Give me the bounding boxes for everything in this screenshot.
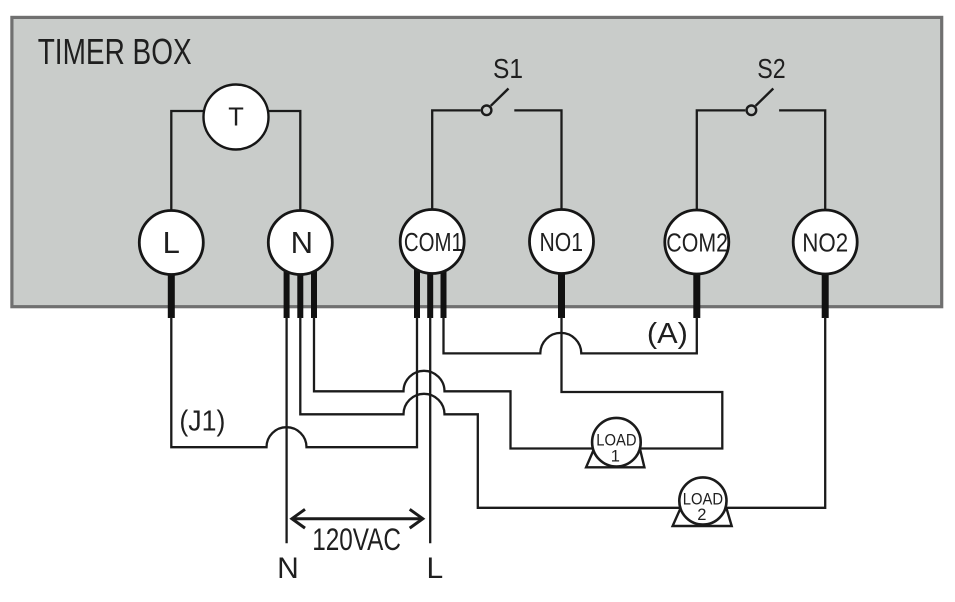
switch S2 pivot [747, 106, 757, 116]
svg-text:TIMER BOX: TIMER BOX [38, 31, 192, 72]
wire A: COM1 to COM2 with hop over NO1 [444, 317, 697, 353]
stubs COM1 x3 [414, 269, 420, 318]
svg-text:N: N [277, 552, 299, 585]
switch S1 pivot [482, 106, 492, 116]
svg-text:N: N [291, 225, 313, 260]
stub NO1 [558, 272, 565, 318]
svg-text:(A): (A) [647, 318, 688, 350]
wire S2 left [697, 110, 746, 210]
load 2 pedestal [673, 508, 732, 526]
stub COM2 [693, 272, 700, 318]
svg-text:NO2: NO2 [802, 228, 848, 258]
wire S1 right [514, 110, 561, 210]
wire N3 to LOAD1 left with hop over COM1 wires [314, 317, 594, 449]
stub NO2 [822, 272, 829, 318]
wire NO1 to LOAD1 right [562, 317, 723, 449]
load 1 motor circle [592, 418, 641, 467]
terminal N [268, 211, 332, 275]
wire NO2 to LOAD2 right [726, 317, 825, 508]
terminal circles [139, 85, 857, 275]
svg-text:COM1: COM1 [404, 227, 463, 257]
svg-text:2: 2 [697, 506, 706, 524]
svg-text:L: L [163, 225, 180, 260]
wire N supply down [285, 317, 287, 543]
load 2 motor circle [679, 477, 726, 524]
120VAC dimension arrow [292, 509, 423, 528]
stubs N x3 [284, 269, 290, 318]
svg-text:NO1: NO1 [540, 227, 584, 257]
wire L to T to N [171, 111, 300, 212]
terminal stubs (thick) [171, 272, 825, 318]
wire S1 left [432, 110, 480, 210]
terminal COM2 [665, 210, 729, 274]
switch S2 blade [756, 89, 774, 106]
wire L supply down [429, 317, 431, 543]
stub L [168, 272, 175, 318]
svg-text:L: L [427, 552, 444, 585]
wires below box [171, 317, 825, 543]
terminal L [139, 211, 203, 275]
timer motor T [204, 85, 269, 150]
wire J1: L to COM1 with hop over N supply [171, 317, 417, 447]
svg-text:(J1): (J1) [179, 406, 225, 438]
svg-text:1: 1 [611, 447, 620, 465]
terminal NO2 [793, 210, 857, 274]
svg-text:S2: S2 [757, 53, 785, 84]
load 1 pedestal [586, 449, 644, 467]
terminal NO1 [530, 210, 594, 274]
svg-text:S1: S1 [493, 53, 523, 84]
switch S1 blade [491, 89, 509, 106]
timer box enclosure [12, 17, 942, 306]
svg-text:COM2: COM2 [666, 228, 728, 258]
svg-text:120VAC: 120VAC [312, 521, 401, 557]
svg-text:T: T [228, 104, 244, 132]
wire N2 to LOAD2 left with hop over COM1 wires [300, 317, 680, 508]
terminal COM1 [400, 210, 464, 274]
wire S2 right [779, 110, 825, 210]
